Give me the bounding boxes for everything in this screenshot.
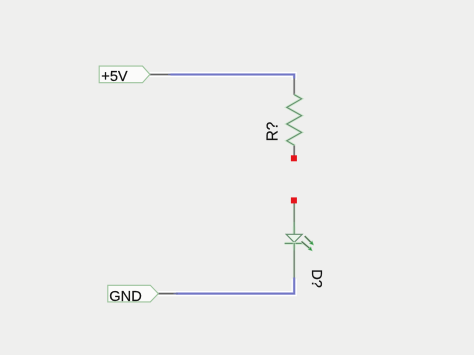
svg-text:GND: GND: [109, 289, 141, 305]
svg-text:+5V: +5V: [101, 69, 128, 85]
svg-text:D?: D?: [308, 269, 324, 288]
svg-text:R?: R?: [264, 122, 281, 142]
